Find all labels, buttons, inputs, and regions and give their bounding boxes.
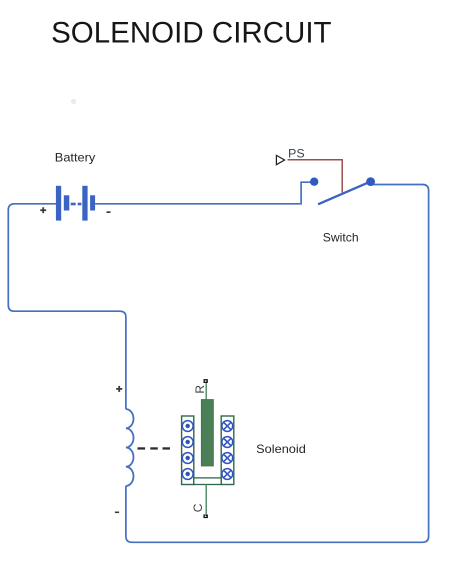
- wire C lead (green): [205, 485, 207, 515]
- wire: battery left lead, down left side, across, down to inductor: [8, 204, 126, 409]
- inductor L1 (4 bumps): [126, 409, 134, 486]
- battery BT1 plate long 2: [82, 186, 87, 221]
- wire: battery right lead to switch left contact: [95, 182, 311, 204]
- svg-text:Solenoid: Solenoid: [256, 442, 306, 456]
- solenoid left winding box: [182, 416, 194, 485]
- svg-text:Battery: Battery: [55, 150, 96, 164]
- svg-text:Switch: Switch: [323, 231, 359, 245]
- svg-text:C: C: [191, 503, 205, 512]
- battery plus sign: [40, 207, 46, 213]
- battery minus sign: [107, 211, 111, 213]
- terminal C square: [203, 515, 208, 519]
- battery cell link dashes: [71, 203, 76, 206]
- minus sign at coil bottom: [115, 512, 119, 514]
- svg-text:PS: PS: [288, 147, 305, 161]
- switch right contact node: [366, 177, 375, 186]
- plus sign at coil top: [116, 386, 122, 392]
- wire R lead (green): [205, 383, 207, 400]
- solenoid right winding box: [221, 416, 234, 485]
- svg-text:SOLENOID CIRCUIT: SOLENOID CIRCUIT: [51, 17, 332, 50]
- wire: inductor bottom, along bottom, up right side, to switch right contact: [126, 185, 429, 543]
- control wire (red) from PS to switch blade: [288, 160, 343, 193]
- switch left contact node: [310, 178, 318, 186]
- battery BT1 plate long 1: [56, 186, 61, 221]
- battery BT1 plate short 1: [64, 195, 70, 210]
- faint smudge mark: [71, 99, 76, 104]
- right winding turns (current into page): [222, 421, 233, 480]
- left winding turns (current out of page): [182, 421, 193, 480]
- dashed link line: [138, 447, 171, 449]
- svg-text:R: R: [193, 385, 207, 394]
- solenoid core: [201, 400, 213, 466]
- switch blade: [319, 182, 371, 204]
- solenoid bottom connector band: [194, 478, 221, 485]
- battery BT1 plate short 2: [90, 195, 95, 210]
- terminal R square: [204, 379, 208, 383]
- PS pointer triangle: [276, 155, 284, 164]
